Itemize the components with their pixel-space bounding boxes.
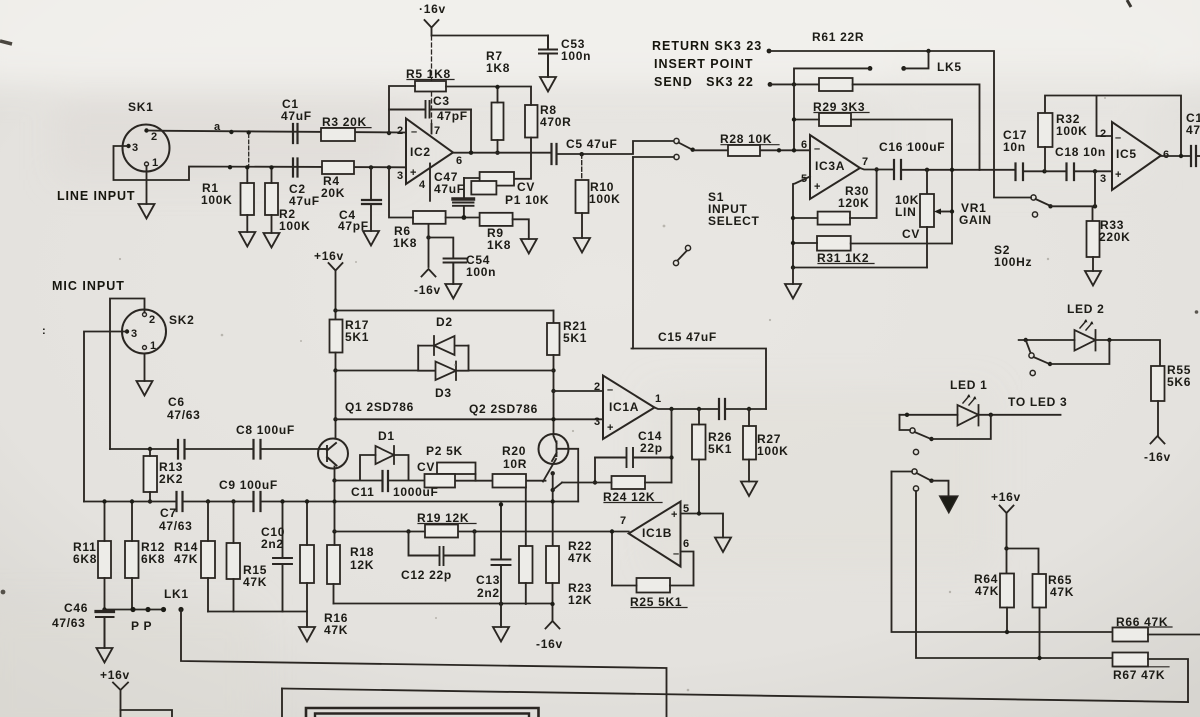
svg-text:–: – xyxy=(607,384,613,396)
svg-text:+16v: +16v xyxy=(991,490,1021,504)
power -16v left xyxy=(422,269,436,277)
wire R22 bottom stub xyxy=(525,583,527,604)
svg-text:IC2: IC2 xyxy=(410,145,431,159)
wire R28 row xyxy=(695,149,811,151)
resistor R24 xyxy=(612,476,646,489)
svg-text:20K: 20K xyxy=(321,186,345,200)
wire R32 bottom xyxy=(1044,147,1046,171)
SK1 pin 1 xyxy=(145,162,149,166)
ground below mic row xyxy=(299,627,315,642)
link LK5 xyxy=(901,66,906,71)
svg-text:5K6: 5K6 xyxy=(1167,375,1191,389)
resistor R12 xyxy=(125,541,139,578)
resistor R17 xyxy=(330,320,343,353)
connector SK1 xyxy=(123,125,170,172)
node pin5 R26 xyxy=(697,511,701,515)
wire R15 bottom xyxy=(233,579,235,612)
switch LED2 bypass xyxy=(1026,340,1031,353)
wire bottom bus xyxy=(282,689,1188,703)
wire R8 top xyxy=(530,87,532,105)
ground below C53 xyxy=(540,77,556,92)
wire R55 bottom xyxy=(1157,401,1159,436)
svg-text:P2 5K: P2 5K xyxy=(426,444,463,458)
node R64 top xyxy=(1004,546,1008,550)
resistor R66 xyxy=(1113,628,1149,642)
resistor R67 xyxy=(1113,653,1149,667)
wire C5 to S1 xyxy=(557,141,674,154)
resistor R65 xyxy=(1033,574,1047,608)
pot P1 body xyxy=(471,181,496,195)
SK2 pin 2 xyxy=(143,313,147,317)
svg-text:2: 2 xyxy=(151,131,157,143)
ground arrow filled xyxy=(940,496,959,513)
svg-text:2: 2 xyxy=(1100,128,1106,140)
node INSERT link end xyxy=(868,66,873,71)
capacitor C18 xyxy=(1067,164,1075,181)
node R24 left xyxy=(593,480,597,484)
node pin6 junction xyxy=(792,148,796,152)
wire IC2 pin4 stub xyxy=(429,164,431,201)
capacitor C5 xyxy=(552,144,557,164)
node R31 left xyxy=(791,241,795,245)
wire top rail xyxy=(336,310,554,312)
paper speckles xyxy=(119,87,1106,691)
node R33 top xyxy=(1093,204,1097,208)
capacitor C4 xyxy=(362,200,381,204)
resistor R26 xyxy=(692,425,706,460)
switch S2 arm xyxy=(1036,199,1049,205)
wire R1 top xyxy=(246,167,248,183)
pot P1 wiper box xyxy=(480,172,514,186)
svg-text:4: 4 xyxy=(419,179,426,191)
box inner enclosure second xyxy=(315,714,529,717)
pot P2 body xyxy=(425,474,456,488)
node diode rail left xyxy=(333,368,337,372)
svg-text:3: 3 xyxy=(1100,173,1106,185)
paper artifact left edge dot xyxy=(1,590,6,595)
node R21 pin2 junction xyxy=(551,389,555,393)
wire +16v to PSU box xyxy=(120,690,122,710)
wire second bus down to R67 row xyxy=(916,491,1113,658)
node R11 top xyxy=(102,499,106,503)
svg-text:RETURN SK3 23: RETURN SK3 23 xyxy=(652,39,762,53)
svg-text:a: a xyxy=(214,121,221,133)
svg-text:2K2: 2K2 xyxy=(159,472,183,486)
node LED1 left xyxy=(905,413,909,417)
wire R7 bottom xyxy=(497,140,499,153)
svg-text:CV: CV xyxy=(417,460,435,474)
wire C6 row xyxy=(110,448,319,450)
wire R21 bottom xyxy=(553,355,555,434)
node R64 R66 row xyxy=(1005,630,1009,634)
node R12 top xyxy=(130,499,134,503)
wire IC1A pin2 xyxy=(554,390,604,392)
node Q1 emitter C11 row xyxy=(332,478,336,482)
resistor R61 xyxy=(819,78,853,91)
svg-text:LK1: LK1 xyxy=(164,587,189,601)
svg-text:100K: 100K xyxy=(757,444,789,458)
capacitor C53 xyxy=(539,36,557,78)
svg-text:TO LED 3: TO LED 3 xyxy=(1008,395,1067,409)
wire R13 top stub xyxy=(149,449,151,456)
box inner enclosure xyxy=(306,708,539,717)
wire R14 bottom xyxy=(207,578,209,612)
wire IC2 output row xyxy=(453,152,552,154)
paper artifact right edge dot xyxy=(1195,310,1199,314)
wire IC5 feedback rail xyxy=(1045,96,1181,157)
svg-text:D3: D3 xyxy=(435,386,452,400)
svg-text:22p: 22p xyxy=(640,441,663,455)
diode D1 xyxy=(376,446,395,464)
wire R18 top xyxy=(334,504,336,546)
wire R17 bottom xyxy=(335,353,337,439)
node VR1 top xyxy=(925,168,929,172)
wire SK1 pin2 to upper row xyxy=(148,131,405,133)
svg-text:P P: P P xyxy=(131,619,152,633)
svg-text:1K8: 1K8 xyxy=(486,61,510,75)
resistor R8 xyxy=(525,105,538,138)
svg-text:47K: 47K xyxy=(324,623,348,637)
svg-text:C18 10n: C18 10n xyxy=(1055,145,1106,159)
node C13 top xyxy=(499,502,503,506)
node P link b xyxy=(145,607,150,612)
resistor R15 xyxy=(227,543,241,579)
svg-text:-16v: -16v xyxy=(1144,450,1171,464)
resistor R5 xyxy=(415,81,446,92)
capacitor C13 xyxy=(492,505,511,628)
pot VR1 xyxy=(926,170,928,194)
wire R21 top stub xyxy=(553,311,555,324)
svg-text:C11: C11 xyxy=(351,485,374,499)
switch S1 upper contact xyxy=(674,138,679,143)
svg-text:100K: 100K xyxy=(589,192,621,206)
node C47 bottom xyxy=(462,215,467,220)
node LED1 right xyxy=(989,413,993,417)
ground below C4 xyxy=(363,231,379,246)
wire mic line down to C15 xyxy=(632,157,634,349)
node R10 top xyxy=(580,152,584,156)
wire R14 top xyxy=(207,502,209,542)
switch S1 second pole arm xyxy=(678,251,687,261)
wire C11 P2 R20 row xyxy=(335,455,546,481)
svg-text:6: 6 xyxy=(801,139,807,151)
svg-text:7: 7 xyxy=(620,515,626,527)
wire R66 right to edge xyxy=(1148,634,1200,636)
svg-text:100n: 100n xyxy=(561,49,591,63)
svg-text:R3 20K: R3 20K xyxy=(322,115,367,129)
svg-text:+: + xyxy=(410,167,416,179)
capacitor C54 xyxy=(444,259,467,285)
capacitor C11 xyxy=(383,471,389,491)
svg-text:–: – xyxy=(411,126,417,138)
capacitor C3 xyxy=(389,101,471,118)
wire R2 bottom xyxy=(271,215,273,233)
resistor R1 xyxy=(241,183,255,215)
wire IC5 output xyxy=(1161,155,1191,157)
op-amp IC2 xyxy=(406,119,453,185)
wire IC3A ground stub xyxy=(792,268,794,285)
wire -16v branch xyxy=(429,224,454,267)
wire +16v to R17 xyxy=(335,271,337,320)
node C46 top xyxy=(102,607,106,611)
svg-text:5K1: 5K1 xyxy=(345,330,369,344)
wire R2 top xyxy=(271,167,273,183)
resistor R29 xyxy=(819,113,851,126)
resistor R28 xyxy=(728,145,760,156)
svg-text:C16 100uF: C16 100uF xyxy=(879,140,945,154)
wire left bus down to R66 row xyxy=(892,472,1113,633)
wire +16v stem xyxy=(1006,513,1008,574)
switch LED1 bypass xyxy=(900,415,911,430)
node IC2 pin3 R6 junction xyxy=(387,165,391,169)
svg-text:P1 10K: P1 10K xyxy=(505,193,549,207)
transistor Q2 xyxy=(539,434,569,464)
svg-text:IC5: IC5 xyxy=(1116,147,1137,161)
svg-text:2n2: 2n2 xyxy=(261,537,284,551)
ground below C46 xyxy=(97,648,113,663)
resistor R27 xyxy=(743,426,756,460)
wire R65 branch xyxy=(1007,549,1039,575)
svg-text:MIC INPUT: MIC INPUT xyxy=(52,279,125,293)
svg-text:47/63: 47/63 xyxy=(159,519,193,533)
wire SK2 top to C6 row xyxy=(110,299,145,450)
wire R67 right down to bus xyxy=(1148,659,1188,702)
svg-text:Q2 2SD786: Q2 2SD786 xyxy=(469,402,538,416)
svg-text:1K8: 1K8 xyxy=(393,236,417,250)
svg-text:C8 100uF: C8 100uF xyxy=(236,423,295,437)
svg-text:220K: 220K xyxy=(1099,230,1131,244)
resistor R3 xyxy=(321,128,355,141)
resistor R31 xyxy=(817,236,851,251)
resistor R9 xyxy=(480,213,513,226)
svg-text:R18: R18 xyxy=(350,545,374,559)
node C10 top xyxy=(280,499,284,503)
node base rail Q2 xyxy=(551,417,555,421)
wire C16 right row xyxy=(901,169,1016,171)
capacitor C12 xyxy=(409,532,475,566)
svg-text:100K: 100K xyxy=(201,193,233,207)
resistor R4 xyxy=(322,161,354,174)
svg-text::: : xyxy=(42,325,46,337)
diode D2 xyxy=(418,336,468,355)
wire -16v row xyxy=(334,604,553,622)
svg-text:47K: 47K xyxy=(174,552,198,566)
resistor R21 xyxy=(547,323,560,355)
diode D3 xyxy=(418,362,468,381)
svg-text:6K8: 6K8 xyxy=(141,552,165,566)
svg-text:+16v: +16v xyxy=(314,249,344,263)
svg-text:1: 1 xyxy=(150,340,156,352)
svg-text:1K8: 1K8 xyxy=(487,238,511,252)
wire R5 right xyxy=(446,86,531,88)
svg-text:6: 6 xyxy=(683,538,689,550)
wire R29 right down to output node xyxy=(851,120,952,244)
resistor R16 xyxy=(300,545,314,583)
svg-text:–: – xyxy=(1115,132,1121,144)
wire mute feed xyxy=(892,471,913,473)
node R65 R67 row xyxy=(1037,656,1041,660)
wire C4 to ground xyxy=(370,205,372,232)
connector SK2 xyxy=(122,310,166,354)
resistor R18 xyxy=(327,545,340,584)
capacitor C16 xyxy=(894,160,901,179)
wire C18 to IC5 pin3 xyxy=(1074,170,1112,172)
wire IC1A output row xyxy=(655,408,767,410)
switch mute contact b xyxy=(913,486,918,491)
node R25 pin7 xyxy=(610,529,614,533)
wire R31 left xyxy=(793,242,817,244)
wire base rail xyxy=(336,418,604,420)
svg-text:SELECT: SELECT xyxy=(708,214,760,228)
wire R27 top stub xyxy=(748,409,750,426)
ground below SK1 xyxy=(139,204,155,219)
wire dashed +16v to IC2 pin7 xyxy=(431,36,433,124)
wire LED1 row xyxy=(900,414,1061,416)
resistor R22 xyxy=(519,546,533,583)
wire C46 row with links xyxy=(105,609,164,611)
svg-text:10R: 10R xyxy=(503,457,527,471)
svg-text:LK5: LK5 xyxy=(937,60,962,74)
wire SK2 pin1 ground stub xyxy=(144,354,146,382)
wire C17 to C18 xyxy=(1023,170,1067,172)
switch S2 contact a xyxy=(1031,195,1036,200)
node R16 top xyxy=(305,499,309,503)
node LED2 right xyxy=(1107,338,1111,342)
resistor R7 xyxy=(492,103,504,141)
node R7 output xyxy=(495,151,499,155)
svg-text:6: 6 xyxy=(456,155,462,167)
wire mute to signal ground xyxy=(932,481,949,496)
node R13 bottom xyxy=(148,499,152,503)
node base rail left xyxy=(333,417,337,421)
wire Q2 emitter diagonal xyxy=(543,459,556,482)
wire P1 wiper xyxy=(464,177,480,179)
node C3 output junction xyxy=(469,151,473,155)
wire diode rail xyxy=(336,370,554,372)
node RETURN terminal xyxy=(767,49,772,54)
wire IC2 pin7 stub xyxy=(431,124,433,134)
wire SK2 pin3 to C7 row xyxy=(84,332,126,502)
wire R23 bottom stub xyxy=(552,583,554,604)
svg-text:3: 3 xyxy=(132,142,138,154)
svg-text:47K: 47K xyxy=(1050,585,1074,599)
node -16v branch xyxy=(426,235,430,239)
resistor R14 xyxy=(201,541,215,578)
node row2 R14 junction xyxy=(206,499,210,503)
resistor R2 xyxy=(265,183,278,215)
svg-text:47uF: 47uF xyxy=(281,109,312,123)
svg-text:C15 47uF: C15 47uF xyxy=(658,330,717,344)
wire R31 right xyxy=(851,243,952,245)
wire IC1B output row xyxy=(335,531,629,533)
wire R25 left up to pin7 row xyxy=(611,532,613,586)
switch S2 contact b xyxy=(1032,212,1037,217)
ground below C54 xyxy=(445,284,461,299)
svg-text:C13: C13 xyxy=(476,573,500,587)
node R19 left xyxy=(406,529,410,533)
node a lower row xyxy=(228,165,232,169)
svg-text:+16v: +16v xyxy=(100,668,130,682)
switch S2 pole node xyxy=(1048,204,1052,208)
resistor R32 xyxy=(1038,113,1053,147)
svg-text:5K1: 5K1 xyxy=(563,331,587,345)
resistor R10 xyxy=(576,180,589,213)
wire RETURN line xyxy=(769,51,994,171)
resistor R13 xyxy=(144,456,158,492)
resistor R20 xyxy=(493,474,527,488)
svg-text:47K: 47K xyxy=(243,575,267,589)
node CV row left xyxy=(791,265,795,269)
svg-text:D2: D2 xyxy=(436,315,453,329)
resistor R64 xyxy=(1000,574,1014,608)
wire D2 branch verticals xyxy=(418,346,468,371)
svg-text:C12 22p: C12 22p xyxy=(401,568,452,582)
svg-text:120K: 120K xyxy=(838,196,870,210)
node C9 R15 junction xyxy=(231,499,235,503)
wire R12 bottom xyxy=(131,578,133,610)
wire R6 right to R9 xyxy=(446,217,480,219)
svg-text:12K: 12K xyxy=(568,593,592,607)
wire C15 top link xyxy=(632,349,767,410)
wire R15 top xyxy=(233,502,235,544)
svg-text:100K: 100K xyxy=(279,219,311,233)
wire R9 right to ground xyxy=(513,219,529,239)
wire C7 C9 long row xyxy=(84,501,578,503)
wire C14 R24 vertical xyxy=(671,409,673,483)
wire +16v rail to C53 xyxy=(432,35,549,37)
capacitor C46 xyxy=(96,610,114,649)
wire enclosure left edge xyxy=(281,689,283,717)
op-amp IC1A xyxy=(603,376,655,440)
wire R10 bottom xyxy=(581,213,583,238)
svg-text:R61 22R: R61 22R xyxy=(812,30,864,44)
svg-text:+: + xyxy=(814,181,820,193)
node R2 top xyxy=(269,165,273,169)
ground below C13 xyxy=(493,627,509,642)
node SEND feedback junction xyxy=(792,82,796,86)
switch mute arm xyxy=(917,473,930,480)
svg-text:–: – xyxy=(673,548,679,560)
svg-text:C9 100uF: C9 100uF xyxy=(219,478,278,492)
wire P2 wiper stub xyxy=(475,474,477,481)
svg-text:Q1 2SD786: Q1 2SD786 xyxy=(345,400,414,414)
node Q1 long row xyxy=(332,499,336,503)
pot P2 wiper box xyxy=(437,463,476,475)
svg-text:LIN: LIN xyxy=(895,205,916,219)
box PSU stub bottom left xyxy=(121,710,173,717)
capacitor C1 xyxy=(293,124,298,143)
capacitor C14 xyxy=(595,448,672,467)
switch S2 feed xyxy=(994,171,1031,197)
wire R24 leads xyxy=(562,482,672,484)
svg-text:47uF: 47uF xyxy=(289,194,320,208)
op-amp IC1B xyxy=(629,502,681,567)
node R27 top xyxy=(747,407,751,411)
svg-text:2n2: 2n2 xyxy=(477,586,500,600)
svg-text:47/63: 47/63 xyxy=(52,616,86,630)
SK1 pin 3 xyxy=(126,144,130,148)
svg-text:7: 7 xyxy=(434,125,440,137)
ground below IC3A xyxy=(785,284,801,299)
ground below R2 xyxy=(264,233,280,248)
node C4 junction xyxy=(369,165,373,169)
node SEND terminal xyxy=(768,82,773,87)
node top rail left xyxy=(333,308,337,312)
wire feedback vertical IC3A xyxy=(793,84,795,150)
wire IC3A pin5 xyxy=(793,177,810,268)
node R19 right xyxy=(472,529,476,533)
wire Q2 base right elbow xyxy=(557,449,578,502)
